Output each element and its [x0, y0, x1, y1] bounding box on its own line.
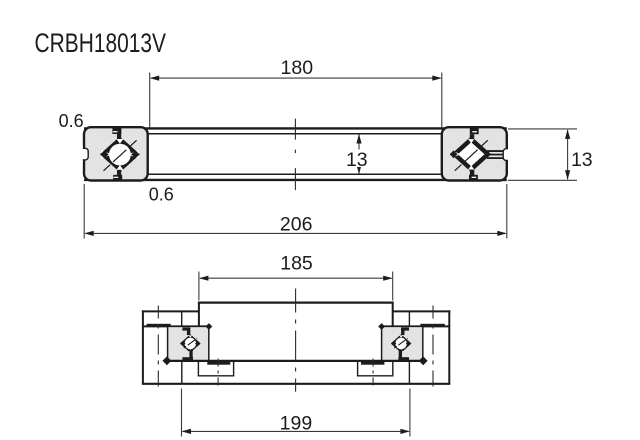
- dim 13 middle: [346, 134, 368, 174]
- clamp bar bottom-right: [361, 362, 384, 365]
- clamp bar bottom-left: [207, 362, 230, 365]
- svg-text:180: 180: [281, 57, 314, 79]
- bottom plate: [142, 361, 450, 384]
- clamp bar top-left: [147, 324, 171, 327]
- roller section right: [450, 128, 503, 181]
- top plate: [198, 303, 394, 327]
- outer ring section bottom-right: [382, 326, 423, 360]
- svg-text:185: 185: [280, 253, 313, 275]
- bearing inner face bottom line: [146, 173, 443, 175]
- svg-text:CRBH18013V: CRBH18013V: [35, 28, 167, 58]
- label 0.6 bottom: [149, 185, 174, 205]
- dim 180: [150, 57, 442, 127]
- bearing outer top line: [84, 127, 507, 129]
- housing right: [393, 310, 451, 383]
- svg-text:13: 13: [571, 149, 593, 171]
- centerline top view: [294, 119, 296, 191]
- bearing inner face top line: [146, 133, 443, 135]
- bearing outer bottom line: [84, 179, 507, 181]
- centerline bolt right: [432, 306, 434, 389]
- dim 199: [182, 389, 410, 437]
- clamp bar top-right: [420, 324, 444, 327]
- dim 185: [199, 253, 393, 301]
- housing left: [142, 310, 199, 383]
- svg-text:0.6: 0.6: [59, 111, 84, 131]
- roller bottom-right: [378, 323, 427, 365]
- title CRBH18013V: [35, 28, 167, 58]
- centerline inner bolt left: [217, 359, 219, 388]
- svg-text:0.6: 0.6: [149, 185, 174, 205]
- centerline bottom view main: [295, 289, 297, 392]
- ring section left: [75, 127, 147, 180]
- outer ring section bottom-left: [168, 326, 209, 360]
- label 0.6 top: [59, 111, 84, 131]
- svg-text:13: 13: [346, 149, 368, 171]
- roller bottom-left: [163, 323, 213, 365]
- roller section left: [100, 128, 140, 181]
- dim 206: [84, 184, 507, 239]
- svg-text:206: 206: [280, 213, 313, 235]
- bearing seat top line: [143, 325, 449, 327]
- ring section right: [442, 127, 516, 180]
- svg-text:199: 199: [280, 413, 313, 435]
- dim 13 right: [508, 129, 593, 180]
- centerline inner bolt right: [372, 359, 374, 388]
- centerline bolt left: [157, 306, 159, 389]
- bearing bottom line: [168, 360, 423, 362]
